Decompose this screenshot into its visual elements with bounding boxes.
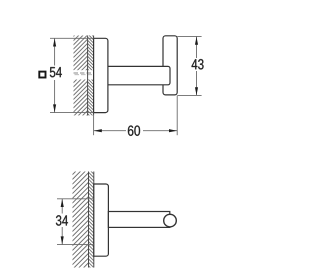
wall hatch left zone (bottom view) xyxy=(73,172,89,268)
wall surface line (bottom view) xyxy=(93,172,95,268)
dim 43 arrow up xyxy=(195,37,198,45)
dim 43 line xyxy=(196,36,198,95)
dim 60 extension left xyxy=(93,115,95,135)
wall hatch right zone xyxy=(88,36,94,116)
dim 43 extension top xyxy=(177,35,201,37)
wall hatch right zone (bottom view) xyxy=(89,172,94,268)
wall hatch left zone xyxy=(74,36,88,116)
dim 34 line xyxy=(61,199,63,245)
dim text 43 xyxy=(192,59,204,69)
hook bar xyxy=(163,36,177,95)
dim 54 arrow up xyxy=(53,39,56,47)
dim 54 line xyxy=(54,38,56,112)
dim 43 arrow down xyxy=(195,87,198,95)
wall layer line (bottom view) xyxy=(88,172,90,268)
dim 34 text gap xyxy=(54,214,70,228)
wall layer line xyxy=(87,36,89,116)
mounting plate xyxy=(94,38,108,112)
dim text 60 xyxy=(128,125,140,135)
dim text 54 xyxy=(50,67,62,77)
dim 54 text gap xyxy=(38,66,65,81)
dim 54 square symbol xyxy=(39,72,45,78)
dim 43 extension bottom xyxy=(178,94,202,96)
dim 54 arrow down xyxy=(53,104,56,112)
dim 60 extension right xyxy=(176,96,178,136)
hook tip circle xyxy=(164,214,177,227)
dim 43 text gap xyxy=(189,58,205,71)
dim 60 arrow right xyxy=(169,129,177,132)
dim 60 arrow left xyxy=(94,129,102,132)
dim 54 extension bottom xyxy=(50,112,94,114)
dim 34 extension bottom xyxy=(57,244,94,246)
dim 34 arrow down xyxy=(61,236,64,244)
mounting plate (bottom view) xyxy=(94,184,109,256)
dim 34 extension top xyxy=(57,198,94,200)
arm xyxy=(108,66,170,84)
hidden fixing line 2 xyxy=(75,74,94,76)
dim 34 arrow up xyxy=(61,199,64,207)
wall surface line xyxy=(93,36,95,116)
hook rod (bottom view) xyxy=(108,212,169,228)
dim 60 line xyxy=(94,130,178,132)
hatch gap band xyxy=(73,70,94,79)
hidden fixing line 1 xyxy=(74,72,94,74)
dim 54 extension top xyxy=(50,37,94,39)
dim text 34 xyxy=(56,215,68,225)
dim 60 text gap xyxy=(126,125,143,138)
